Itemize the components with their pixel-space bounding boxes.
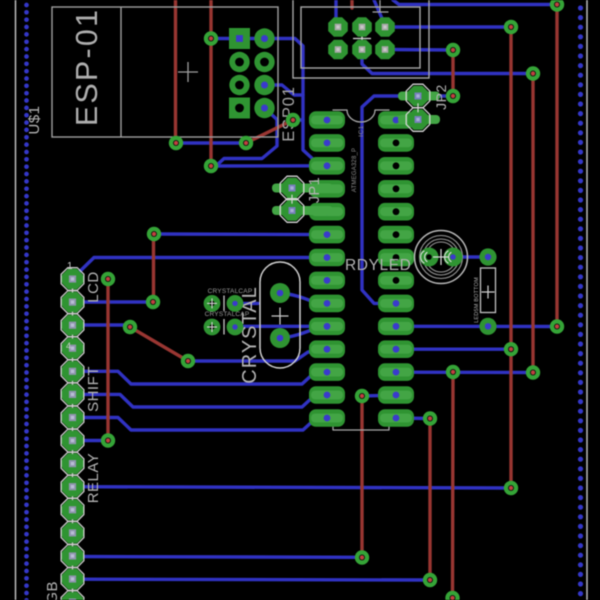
IC IC1 pin 9 (left row 9) xyxy=(309,295,345,313)
wire blue pad to via (108,440) xyxy=(72,439,108,442)
IC IC1 pin 26 (right row 3) xyxy=(378,157,414,175)
LED RDYLED pad marks xyxy=(421,251,451,263)
wire red vertical from top edge through via (211,38) to via (211,166) xyxy=(209,0,212,166)
svg-text:CRYSTALCAP: CRYSTALCAP xyxy=(208,288,253,295)
IC IC1 pin 17 (right row 12) xyxy=(378,363,414,381)
wire blue from JP3 pad down and right to via (533,73) xyxy=(362,52,533,74)
header column pad 12 xyxy=(61,522,85,545)
via fence right xyxy=(578,5,583,596)
wire blue LED pad to LED5MM top pad xyxy=(453,255,488,258)
wire red via (511,27) to via (511,488) xyxy=(509,27,512,488)
IC IC1 pin 20 (right row 9) xyxy=(378,295,414,313)
header column pad 5 xyxy=(61,360,85,383)
IC IC1 pin 2 (left row 2) xyxy=(309,134,345,152)
board edge left xyxy=(15,0,17,600)
svg-text:1: 1 xyxy=(67,261,73,272)
wire red via (154,234) to via (153,302) xyxy=(152,234,155,302)
IC IC1 pin 14 (left row 14) xyxy=(309,409,345,427)
connector JP3 pin link line xyxy=(361,30,363,47)
ESP01 socket pad 1 square xyxy=(229,28,250,49)
capacitor CRYSTALCAP1 pad 1 xyxy=(204,295,221,312)
connector JP3 pad 3 xyxy=(352,17,372,37)
LED5MM BOTTOM outline xyxy=(481,268,496,313)
capacitor CRYSTALCAP2 pad 2 xyxy=(227,319,244,336)
wire blue via (211,166) to DIP pin row 166 xyxy=(211,164,324,168)
header column pad 1 xyxy=(61,268,85,291)
svg-text:RGB: RGB xyxy=(44,581,61,600)
wire blue crystal pad 1 curve to DIP pin row 303 xyxy=(280,293,324,303)
wire blue LCD pad 3 to via (130,327) xyxy=(72,325,130,327)
wire blue via (188,361) to DIP pin row 349 xyxy=(188,349,327,361)
capacitor CRYSTALCAP2 plate line xyxy=(223,319,225,335)
ESP-01 module divider line xyxy=(120,7,122,137)
connector JP3 pad 5 xyxy=(375,17,395,37)
LED RDYLED cathode pad xyxy=(420,248,439,267)
wire red via (362,396) to via (362,558) xyxy=(360,396,363,558)
crystal Q1 outline xyxy=(260,262,300,368)
connector JP3 pad 2 xyxy=(328,40,348,60)
capacitor CRYSTALCAP2 pad cross xyxy=(207,322,217,332)
header JP1 pad 2 xyxy=(272,199,333,223)
IC IC1 pin 23 (right row 6) xyxy=(378,226,414,244)
via V26 at (511,488) xyxy=(504,481,518,495)
svg-text:RDYLED: RDYLED xyxy=(345,257,411,274)
via V2 at (557,4.5) xyxy=(550,0,564,12)
connector JP3 outer outline xyxy=(293,0,429,78)
wire blue crystal pad 2 curve to DIP pin row 326 xyxy=(280,326,324,338)
svg-text:LED5M BOTTOM: LED5M BOTTOM xyxy=(474,277,480,323)
wire blue JP2 pad 2 to DIP pin row 120 xyxy=(396,118,412,122)
svg-text:IC1: IC1 xyxy=(358,125,365,137)
connector JP3 origin cross xyxy=(353,30,371,48)
capacitor CRYSTALCAP2 pad 1 xyxy=(204,319,221,336)
ESP01 socket pad 7 square xyxy=(229,98,250,119)
IC IC1 pin 22 (right row 7) xyxy=(378,249,414,267)
ESP-01 module origin cross xyxy=(178,62,198,82)
header JP2 pad 2 xyxy=(398,108,440,132)
board edge right xyxy=(586,0,588,600)
via V11 at (154,234) xyxy=(147,227,161,241)
wire blue stub via (293,120) to vertical xyxy=(293,118,303,121)
header column pad 2 xyxy=(61,291,85,314)
via V18 at (430,418.5) xyxy=(423,411,437,425)
connector JP3 pin1 mark xyxy=(373,0,388,12)
wire blue staircase SHIFT 2 to DIP pin row 395 xyxy=(72,394,324,407)
IC IC1 pin 4 (left row 4) xyxy=(309,180,345,198)
capacitor CRYSTALCAP1 pad cross xyxy=(207,298,217,308)
svg-text:ESP-01: ESP-01 xyxy=(70,8,104,126)
IC IC1 pin 5 (left row 5) xyxy=(309,203,345,221)
svg-text:ATMEGA328_P: ATMEGA328_P xyxy=(352,148,358,192)
LED5MM BOTTOM pad 1 xyxy=(479,248,496,265)
IC IC1 pin 18 (right row 11) xyxy=(378,340,414,358)
wire blue DIP row 349 to via (511,349) xyxy=(399,348,511,351)
IC IC1 pin 1 (left row 1) xyxy=(309,111,345,129)
via fence left xyxy=(24,3,29,600)
header column pad 13 xyxy=(61,545,85,568)
via V16 at (108,440.5) xyxy=(101,433,115,447)
svg-text:SHIFT: SHIFT xyxy=(85,366,102,412)
via V25 at (452.5,598) xyxy=(445,591,459,600)
via V10 at (211,166) xyxy=(204,159,218,173)
header column pad 10 xyxy=(61,475,85,498)
wire blue via (453,96) through JP2 pad 1 down to DIP pin 2 column xyxy=(362,96,453,303)
ESP01 socket pad 2 xyxy=(254,28,274,48)
wire blue ESP socket pin to DIP pin via vertical x=303 xyxy=(265,39,328,166)
via V23 at (362,557.5) xyxy=(355,550,369,564)
wire blue row to via (511,27) xyxy=(388,25,511,28)
header JP1 pin link xyxy=(288,195,297,204)
via V5 at (533,73.5) xyxy=(526,66,540,80)
crystal Q1 pad 1 xyxy=(270,283,290,303)
ESP-01 module U$1 outline xyxy=(52,7,278,137)
via V6 at (453,96) xyxy=(446,89,460,103)
header column pad 3 xyxy=(61,314,85,337)
header JP2 pad 1 xyxy=(398,84,440,108)
wire blue via (154,234) to DIP pin row 234 xyxy=(154,232,324,236)
via V17 at (362,396) xyxy=(355,389,369,403)
via V3 at (511,27) xyxy=(504,20,518,34)
wire blue via (362,396) to DIP pin xyxy=(362,393,396,397)
header column pad 11 xyxy=(61,498,85,521)
IC IC1 pin 12 (left row 12) xyxy=(309,363,345,381)
wire blue ESP socket row 1 xyxy=(211,37,265,40)
wire blue ESP socket pin 8 loop to via (211,166) net xyxy=(217,108,277,165)
svg-text:4: 4 xyxy=(66,341,72,351)
header column inter-pad silk ticks xyxy=(72,289,74,593)
via V15 at (108,279) xyxy=(101,272,115,286)
wire blue crystal cap stub xyxy=(235,302,258,305)
wire blue stub entering top edge to JP3 pad 1 xyxy=(336,0,338,25)
capacitor CRYSTALCAP1 plate line xyxy=(223,296,225,312)
IC IC1 pin 13 (left row 13) xyxy=(309,386,345,404)
via V19 at (453,372) xyxy=(446,365,460,379)
header JP1 pad 1 xyxy=(272,176,333,200)
wire blue DIP row 326 to LED5MM pad and via (557,326.5) xyxy=(399,325,557,329)
ESP01 socket pad 5 xyxy=(229,75,249,95)
via V4 at (453,50) xyxy=(446,43,460,57)
wire red stub top edge at x=352 xyxy=(350,0,353,8)
IC IC1 bottom bracket silk xyxy=(333,425,389,430)
IC IC1 pin 21 (right row 8) xyxy=(378,272,414,290)
wire blue LCD pad 1 diagonal then row 257 to DIP pin xyxy=(72,258,324,280)
svg-text:CRYSTALCAP: CRYSTALCAP xyxy=(205,311,250,318)
svg-text:LCD: LCD xyxy=(85,271,102,303)
wire blue RGB pad row to via (430,580) xyxy=(72,578,430,582)
IC IC1 pin 27 (right row 2) xyxy=(378,134,414,152)
via V22 at (557,326.5) xyxy=(550,319,564,333)
wire blue RGB pad row to via (362,558) xyxy=(72,555,362,559)
connector JP3 pad 1 xyxy=(328,17,348,37)
IC IC1 pin 10 (left row 10) xyxy=(309,318,345,336)
IC IC1 pin 6 (left row 6) xyxy=(309,226,345,244)
wire red via (108,279) to via (108,440) xyxy=(106,279,109,441)
IC IC1 pin 19 (right row 10) xyxy=(378,318,414,336)
connector JP3 inner outline xyxy=(301,7,420,68)
wire blue stub entering top edge to JP3 pad 3 xyxy=(374,0,384,23)
IC IC1 pin 7 (left row 7) xyxy=(309,249,345,267)
via V1 at (211,38.5) xyxy=(204,31,218,45)
header column pad 4 xyxy=(61,337,85,360)
wire blue top edge net to via at (557,5) xyxy=(393,0,557,5)
via V14 at (188,361) xyxy=(181,354,195,368)
wire blue RELAY pad long row to via (511,488) xyxy=(72,487,511,488)
wire red diagonal via (130,327) to via (188,361) xyxy=(130,327,188,361)
IC IC1 notch silk xyxy=(333,110,389,122)
wire blue via (176,143) to via (246,143) xyxy=(176,141,246,144)
via V21 at (533,372.5) xyxy=(526,365,540,379)
ESP01 socket pad 4 xyxy=(254,52,274,72)
LED RDYLED center cross xyxy=(433,249,449,265)
crystal Q1 pad 2 xyxy=(270,328,290,348)
wire red via (557,5) to via (557,327) xyxy=(555,5,558,327)
header column pad 6 xyxy=(61,383,85,406)
IC IC1 pin 15 (right row 14) xyxy=(378,409,414,427)
wire blue staircase SHIFT 1 to DIP pin row 372 xyxy=(72,371,324,384)
connector JP3 pad 6 xyxy=(375,40,395,60)
svg-text:JP1: JP1 xyxy=(307,177,323,204)
IC IC1 pin 3 (left row 3) xyxy=(309,157,345,175)
wire blue DIP row 372 through via (453,372) to via (533,373) xyxy=(399,371,533,375)
header column pad 8 xyxy=(61,429,85,452)
IC IC1 pin 28 (right row 1) xyxy=(378,111,414,129)
wire red via (533,73) to via (533,373) xyxy=(531,74,534,373)
wire blue DIP pin row 418 to via (430,418) xyxy=(396,416,430,420)
ESP01 socket pad 3 xyxy=(229,52,249,72)
via V8 at (176,143) xyxy=(169,136,183,150)
wire blue crystal cap to DIP pin row 326 xyxy=(235,325,324,328)
LED RDYLED outline circles xyxy=(415,231,468,284)
IC IC1 pin 11 (left row 11) xyxy=(309,340,345,358)
header JP2 pin link xyxy=(414,103,423,112)
LED5MM BOTTOM pad 2 xyxy=(479,318,496,335)
LED5MM BOTTOM polarity cross xyxy=(482,286,495,299)
IC IC1 pin 25 (right row 4) xyxy=(378,180,414,198)
IC IC1 pin 24 (right row 5) xyxy=(378,203,414,221)
header column pad 15 xyxy=(61,591,85,600)
wire red via (453,50) to via (453,96) xyxy=(451,50,454,96)
wire blue row to via (453,50) xyxy=(388,48,453,52)
wire red via (453,372) to via (452,598) xyxy=(451,372,455,598)
via V24 at (430,580) xyxy=(423,573,437,587)
via V13 at (130,327) xyxy=(123,320,137,334)
IC IC1 pin 8 (left row 8) xyxy=(309,272,345,290)
wire blue LCD pad 2 to via (153,302) xyxy=(72,300,153,303)
wire blue ESP socket row 3 joining vertical xyxy=(265,85,304,95)
wire blue staircase SHIFT 3 to DIP pin row 418 xyxy=(72,418,324,431)
header column pad 9 xyxy=(61,452,85,475)
via V20 at (511,349.2) xyxy=(504,342,518,356)
crystal Q1 origin cross xyxy=(272,308,289,325)
wire red via (430,418) to via (430,580) xyxy=(428,419,431,581)
header column pad 7 xyxy=(61,406,85,429)
connector JP3 pad 4 xyxy=(352,40,372,60)
svg-text:RELAY: RELAY xyxy=(85,453,102,504)
ESP01 socket pad 6 xyxy=(254,75,274,95)
LED RDYLED anode pad xyxy=(444,248,463,267)
via V12 at (153,302) xyxy=(146,295,160,309)
via V9 at (246,143) xyxy=(239,136,253,150)
wire red vertical from top edge to via (176,143) xyxy=(174,0,177,143)
via V7 at (293,120) xyxy=(286,113,300,127)
ESP01 socket pad 8 xyxy=(254,98,274,118)
IC IC1 pin 16 (right row 13) xyxy=(378,386,414,404)
capacitor CRYSTALCAP1 pad 2 xyxy=(227,295,244,312)
wire red diagonal via (246,143) to via (293,120) xyxy=(246,120,293,143)
header column pad 14 xyxy=(61,568,85,591)
